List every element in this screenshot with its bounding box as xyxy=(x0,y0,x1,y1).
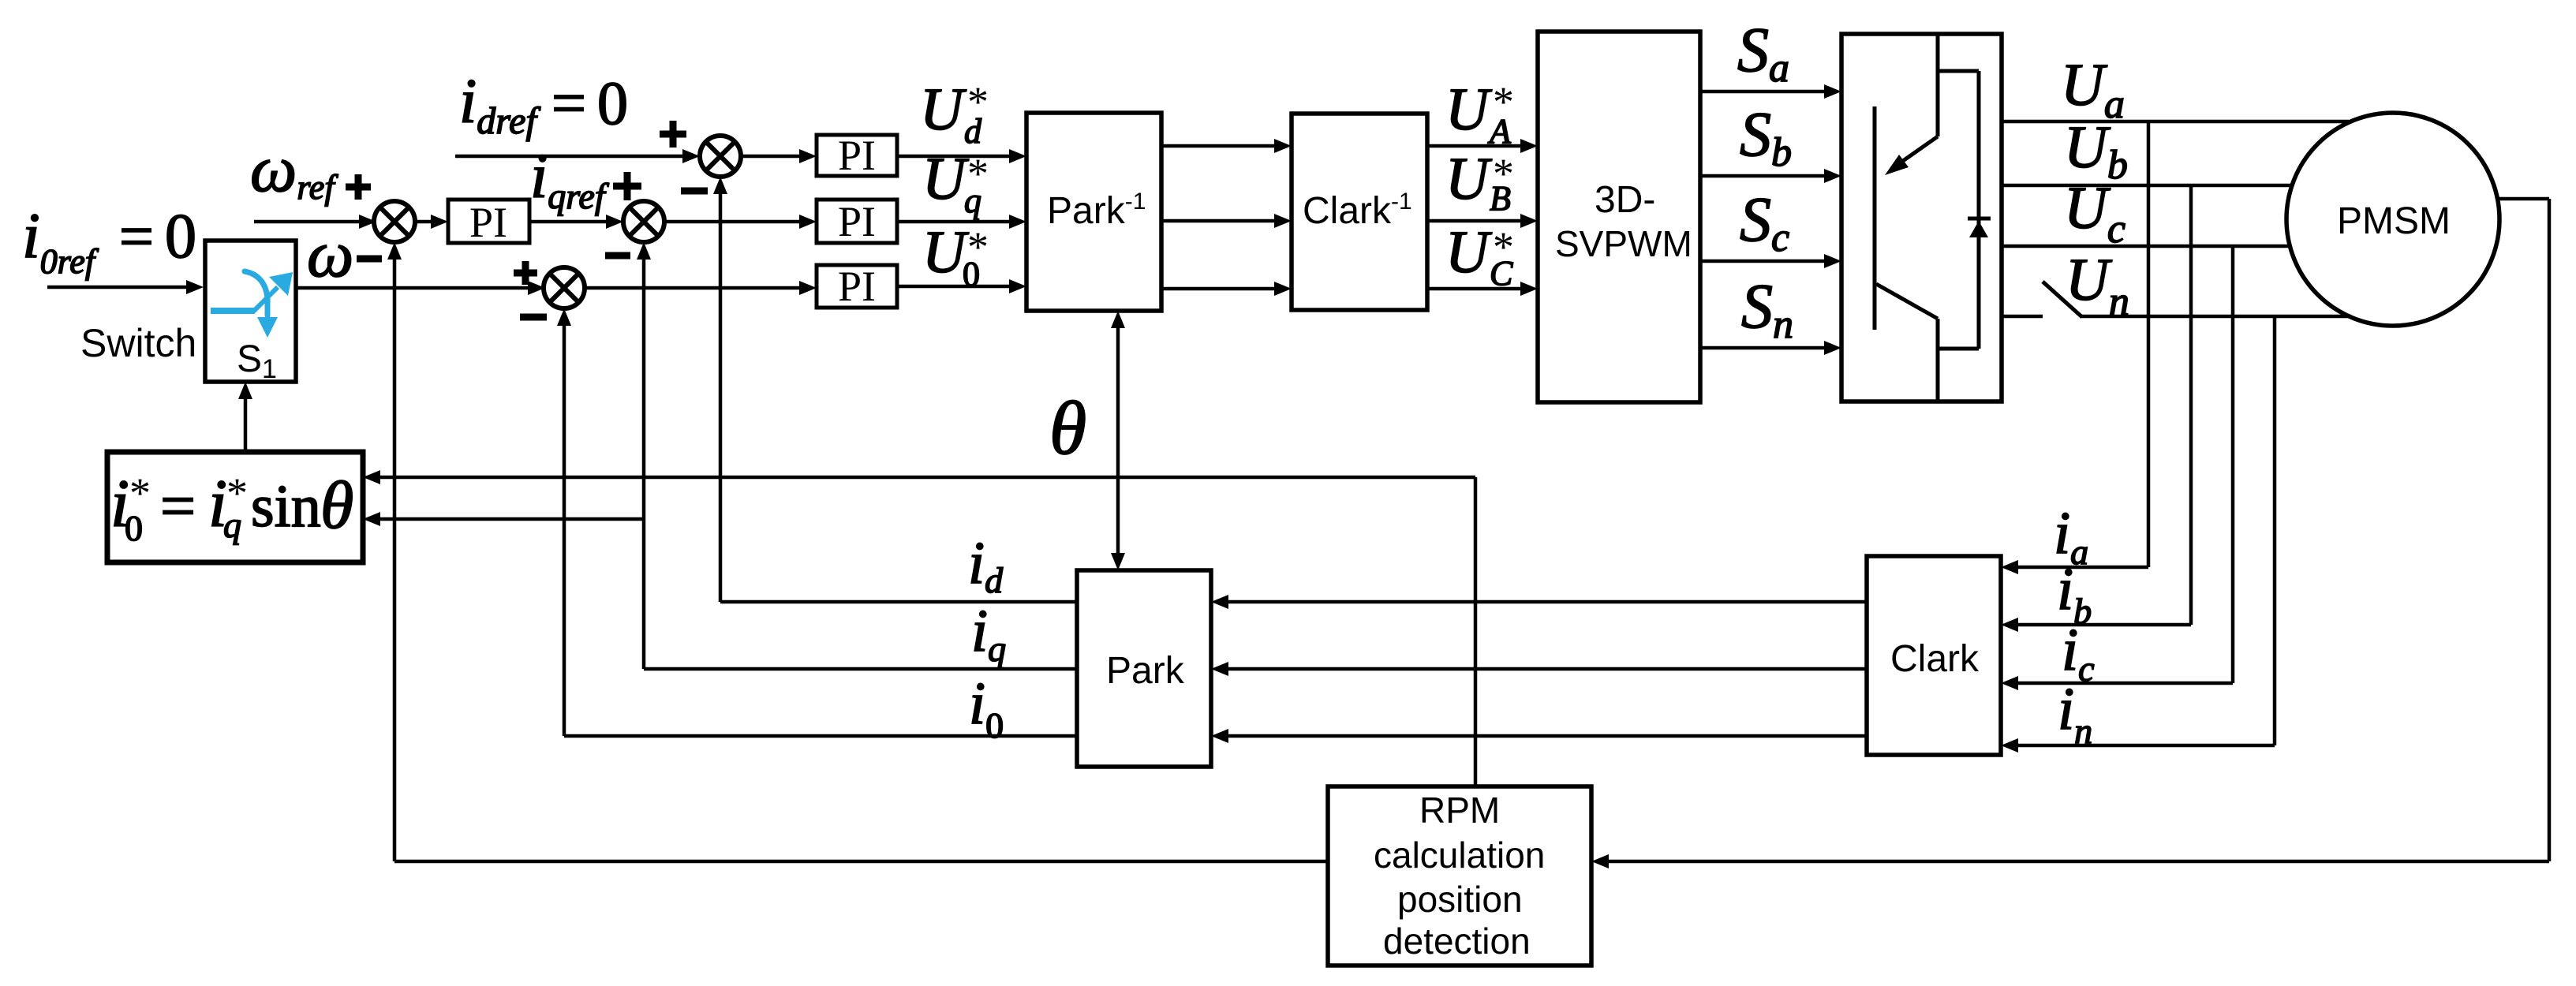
wire Un stub xyxy=(2002,315,2043,319)
wire formula to switch xyxy=(244,396,248,452)
wire id feedback xyxy=(720,600,1077,604)
svg-text:q: q xyxy=(964,181,981,220)
wire Park-inv to Clark-inv xyxy=(1161,287,1277,291)
diode branch vertical xyxy=(1977,71,1981,349)
plus sign at sum1 xyxy=(346,184,371,191)
svg-text:PI: PI xyxy=(838,198,876,245)
wire ia into Clark xyxy=(2015,566,2148,570)
svg-text:3D-: 3D- xyxy=(1595,179,1655,221)
svg-text:U: U xyxy=(1445,219,1492,286)
block 3D-SVPWM xyxy=(1538,32,1700,402)
wire Park-inv to Clark-inv xyxy=(1161,219,1277,223)
wire ic tap vertical xyxy=(2231,246,2235,683)
wire SVPWM to inverter xyxy=(1700,346,1827,350)
wire omega-ref into sum1 xyxy=(254,220,361,224)
svg-text:=: = xyxy=(160,472,196,541)
svg-text:i0: i0 xyxy=(969,670,1004,745)
svg-text:0: 0 xyxy=(597,69,628,137)
block Park-inverse xyxy=(1026,113,1161,311)
wire PI-bot to Park-inv xyxy=(897,285,1012,289)
wire sensor vertical xyxy=(2548,199,2552,861)
wire Un xyxy=(2081,315,2351,319)
svg-text:PI: PI xyxy=(838,132,876,179)
wire Clark-inv to SVPWM xyxy=(1427,219,1522,223)
svg-text:θ: θ xyxy=(320,467,353,543)
svg-text:PI: PI xyxy=(469,199,507,246)
minus sign at sum3 xyxy=(520,314,547,321)
svg-text:i0ref: i0ref xyxy=(22,200,99,281)
svg-text:A: A xyxy=(1487,112,1512,151)
svg-text:B: B xyxy=(1490,179,1511,218)
wire PMSM sensor stub xyxy=(2498,197,2549,201)
svg-text:Sc: Sc xyxy=(1740,185,1789,260)
diode branch top xyxy=(1938,69,1979,73)
svg-text:S1: S1 xyxy=(237,338,277,384)
summing junction sum1 xyxy=(374,201,415,242)
wire sumd to PI-top xyxy=(741,155,801,159)
svg-text:detection: detection xyxy=(1383,921,1531,962)
minus sign at sumd xyxy=(681,188,708,195)
PI controller PI-bot xyxy=(817,265,897,308)
inverter box xyxy=(1841,34,2002,401)
svg-text:Un: Un xyxy=(2066,247,2129,324)
theta vertical from RPM block xyxy=(1474,477,1478,786)
switch S1 box xyxy=(205,241,296,382)
wire ia tap vertical xyxy=(2147,121,2151,567)
svg-text:C: C xyxy=(1490,254,1513,293)
svg-text:RPM: RPM xyxy=(1419,790,1500,831)
svg-text:=: = xyxy=(551,69,586,137)
PI controller PI-top xyxy=(817,135,897,176)
theta wire to formula box xyxy=(377,476,1475,480)
motor PMSM xyxy=(2286,113,2499,326)
svg-text:0: 0 xyxy=(963,255,980,293)
svg-text:calculation: calculation xyxy=(1374,835,1545,876)
wire idref into sumd xyxy=(455,155,686,159)
wire omega return from RPM to sum1 xyxy=(394,860,1328,864)
switch symbol cyan xyxy=(211,271,293,338)
svg-text:PI: PI xyxy=(838,263,876,310)
svg-text:sin: sin xyxy=(251,473,321,540)
wire Ua xyxy=(2002,120,2349,124)
summing junction sum3 xyxy=(544,267,585,308)
svg-text:ω: ω xyxy=(307,218,353,291)
wire in into Clark xyxy=(2015,744,2275,748)
svg-text:Sb: Sb xyxy=(1740,100,1792,175)
wire SVPWM to inverter xyxy=(1700,90,1827,94)
wire sum2 to PI-mid xyxy=(664,220,801,224)
svg-text:U: U xyxy=(1445,146,1492,212)
wire sum1 to PI1 xyxy=(415,220,434,224)
wire Clark to Park xyxy=(1225,734,1867,738)
wire Park-inv to Clark-inv xyxy=(1161,144,1277,148)
wire ib tap vertical xyxy=(2189,185,2193,625)
plus sign at sum2 xyxy=(613,183,641,190)
wire PI-top to Park-inv xyxy=(897,155,1012,159)
svg-text:Clark-1: Clark-1 xyxy=(1303,189,1412,232)
wire i0ref into switch xyxy=(47,286,189,289)
PI controller PI1 xyxy=(448,200,529,243)
svg-text:Sn: Sn xyxy=(1741,272,1793,347)
wire in tap vertical xyxy=(2273,316,2277,745)
wire ib into Clark xyxy=(2015,623,2191,627)
IGBT top rail xyxy=(1936,34,1940,136)
svg-text:iqref: iqref xyxy=(530,142,610,216)
theta vertical wire between Park-inv and Park xyxy=(1116,322,1120,559)
summing junction sumd xyxy=(700,136,741,177)
svg-text:Park: Park xyxy=(1106,650,1185,692)
svg-text:Switch: Switch xyxy=(80,321,196,365)
IGBT emitter xyxy=(1876,284,1938,319)
wire ic into Clark xyxy=(2015,682,2233,685)
IGBT collector arrow xyxy=(1893,136,1938,168)
svg-text:0: 0 xyxy=(165,202,196,271)
svg-text:ωref: ωref xyxy=(250,133,338,207)
svg-text:Clark: Clark xyxy=(1890,638,1980,680)
wire switch to sum3 xyxy=(296,286,529,290)
summing junction sum2 xyxy=(623,201,664,242)
svg-text:d: d xyxy=(964,112,982,151)
wire PI1 to sum2 xyxy=(529,220,609,224)
svg-text:position: position xyxy=(1397,879,1523,920)
svg-text:PMSM: PMSM xyxy=(2337,200,2451,242)
wire Ub xyxy=(2002,184,2293,188)
plus sign at sumd xyxy=(660,131,686,138)
wire PI-mid to Park-inv xyxy=(897,220,1012,224)
IGBT bottom rail xyxy=(1936,319,1940,401)
svg-text:idref: idref xyxy=(459,67,540,142)
diode cathode bar xyxy=(1968,217,1991,221)
wire Clark to Park xyxy=(1225,600,1867,604)
wire SVPWM to inverter xyxy=(1700,174,1827,178)
IGBT gate bar xyxy=(1873,106,1877,330)
wire iq-star tap to formula box xyxy=(377,517,644,521)
block Park xyxy=(1077,570,1211,767)
wire SVPWM to inverter xyxy=(1700,260,1827,263)
wire sensor into RPM block xyxy=(1606,860,2549,864)
svg-text:id: id xyxy=(968,530,1004,600)
svg-text:U: U xyxy=(922,146,969,212)
block Clark-inverse xyxy=(1292,114,1427,310)
wire sum3 to PI-bot xyxy=(585,286,801,290)
svg-text:q: q xyxy=(223,505,241,545)
PI controller PI-mid xyxy=(817,200,897,243)
switch contact on Un xyxy=(2043,282,2082,317)
block Clark xyxy=(1867,556,2001,755)
svg-text:Sa: Sa xyxy=(1737,16,1789,91)
svg-text:=: = xyxy=(119,202,154,271)
svg-text:Park-1: Park-1 xyxy=(1047,189,1146,232)
wire i0 feedback xyxy=(564,734,1077,738)
svg-text:SVPWM: SVPWM xyxy=(1555,223,1692,264)
svg-text:iq: iq xyxy=(971,598,1006,669)
wire Clark to Park xyxy=(1225,667,1867,671)
wire Clark-inv to SVPWM xyxy=(1427,144,1522,148)
diode branch bottom xyxy=(1938,347,1979,351)
block RPM calculation xyxy=(1328,786,1591,965)
wire iq feedback xyxy=(644,667,1077,671)
formula block i0*=iq*sin(theta) xyxy=(107,452,363,562)
wire Clark-inv to SVPWM xyxy=(1427,287,1522,291)
wire Uc xyxy=(2002,245,2290,248)
minus sign at sum2 xyxy=(605,252,630,260)
diode triangle xyxy=(1969,221,1988,237)
svg-text:U: U xyxy=(920,77,966,143)
svg-text:0: 0 xyxy=(125,508,143,548)
svg-text:U: U xyxy=(1445,77,1492,143)
svg-text:θ: θ xyxy=(1049,386,1086,470)
plus sign at sum3 xyxy=(514,270,537,277)
